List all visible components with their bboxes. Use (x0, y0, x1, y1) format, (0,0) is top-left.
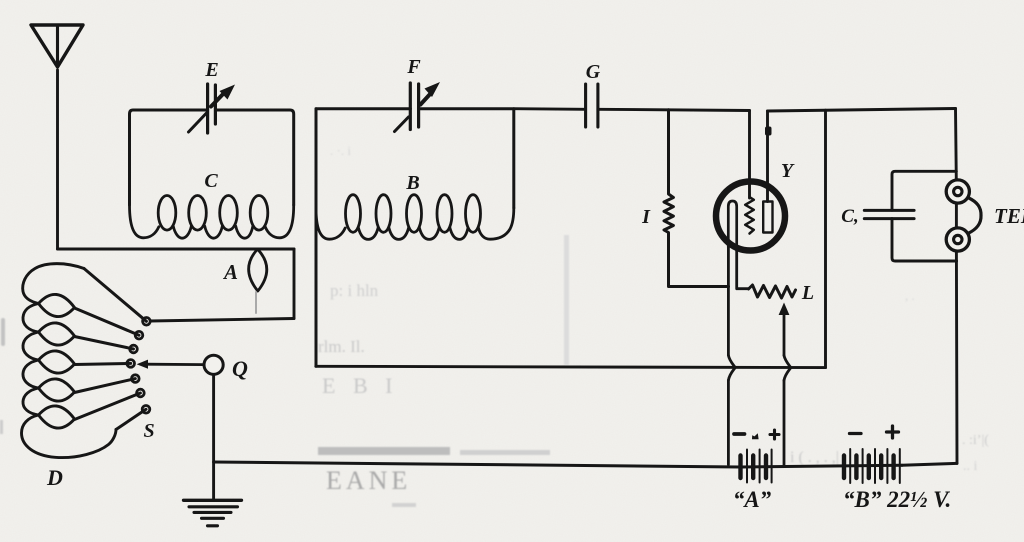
wire filament right leg (737, 250, 749, 289)
switch arm Q (204, 355, 223, 374)
svg-text:“A”: “A” (733, 487, 772, 512)
wire hop to battery A minus (727, 380, 730, 464)
crossover hop (784, 355, 791, 380)
svg-text:C: C (204, 170, 218, 192)
inductor C (130, 196, 294, 239)
switch arm arrowhead (137, 360, 148, 369)
svg-text:EANE: EANE (326, 466, 411, 495)
crossover hop (728, 355, 735, 380)
svg-text:p: i hln: p: i hln (330, 281, 379, 300)
svg-text:D: D (46, 465, 63, 490)
wire loop A faint tail (255, 292, 257, 313)
wire between phones (955, 204, 958, 228)
wire wiper down (783, 311, 786, 355)
battery A (741, 450, 772, 483)
tuning coil D turns (22, 264, 117, 458)
wire right rail lower (955, 251, 958, 463)
plate lead ink blob (765, 127, 772, 136)
svg-text:S: S (143, 420, 154, 442)
tuning coil D tap leads (75, 269, 147, 430)
battery B (844, 449, 900, 483)
wire Q to ground (212, 374, 215, 500)
wire hop to battery A plus (783, 380, 786, 466)
wire grid lead (748, 111, 751, 199)
svg-text:“B” 22½ V.: “B” 22½ V. (843, 487, 951, 512)
svg-text:rlm. Il.: rlm. Il. (318, 337, 365, 356)
wire G to grid corner (598, 109, 750, 110)
rheostat L (749, 285, 796, 298)
wire primary loop top (58, 248, 295, 251)
battery A polarity signs (734, 430, 779, 439)
wire primary loop bottom (150, 319, 294, 322)
battery B polarity signs (850, 426, 899, 438)
wire feedback rail (316, 366, 826, 367)
tube grid zigzag (745, 197, 754, 234)
wire plate branch down (824, 110, 827, 367)
wire bottom right corner (902, 463, 957, 465)
antenna (31, 25, 83, 67)
svg-text:F: F (406, 56, 421, 78)
svg-text:, .: , . (905, 288, 915, 303)
tank box B/F left edge (315, 109, 318, 367)
svg-text:i ( . , . ,|: i ( . , . ,| (790, 449, 839, 466)
capacitor G (586, 84, 598, 127)
wire primary loop right edge (293, 249, 296, 319)
variable capacitor E (189, 84, 236, 133)
ground (184, 500, 242, 526)
rheostat wiper arrow (779, 303, 790, 316)
wire filament left leg down (727, 247, 730, 355)
bypass capacitor C1 box (892, 171, 957, 261)
switch arm wire (145, 363, 204, 366)
wire right rail upper (954, 109, 958, 181)
svg-text:. ·. i: . ·. i (330, 143, 351, 158)
tank box C/E (130, 110, 294, 205)
svg-text:E: E (204, 59, 218, 81)
telephones TEL (946, 180, 981, 251)
svg-text:E B I: E B I (322, 373, 398, 398)
svg-text:I: I (641, 206, 651, 228)
variable capacitor F (395, 82, 441, 132)
wire ground bus (214, 462, 902, 467)
svg-text:. :i’|(: . :i’|( (962, 433, 989, 448)
tube filament (728, 201, 736, 251)
wire plate lead (766, 111, 769, 202)
svg-text:Y: Y (781, 160, 795, 182)
svg-text:.. i: .. i (963, 459, 978, 474)
svg-text:Q: Q (232, 356, 248, 381)
svg-text:B: B (405, 172, 419, 194)
coupling loop A (249, 250, 267, 291)
svg-text:L: L (801, 282, 814, 304)
svg-text:C,: C, (841, 206, 858, 227)
svg-text:A: A (222, 260, 238, 284)
svg-text:TEL: TEL (994, 204, 1024, 228)
tube plate (763, 202, 772, 233)
wire plate top rail (768, 109, 956, 112)
tank box B/F outline (316, 109, 514, 208)
svg-text:G: G (586, 61, 601, 83)
grid-leak resistor I (664, 110, 729, 287)
wire antenna down-lead (56, 70, 59, 249)
tap switch S contacts (127, 318, 150, 414)
vacuum tube Y envelope (716, 182, 785, 251)
wire tank2 to G (514, 107, 586, 111)
capacitor C1 plates (864, 210, 914, 218)
inductor B (316, 195, 514, 240)
